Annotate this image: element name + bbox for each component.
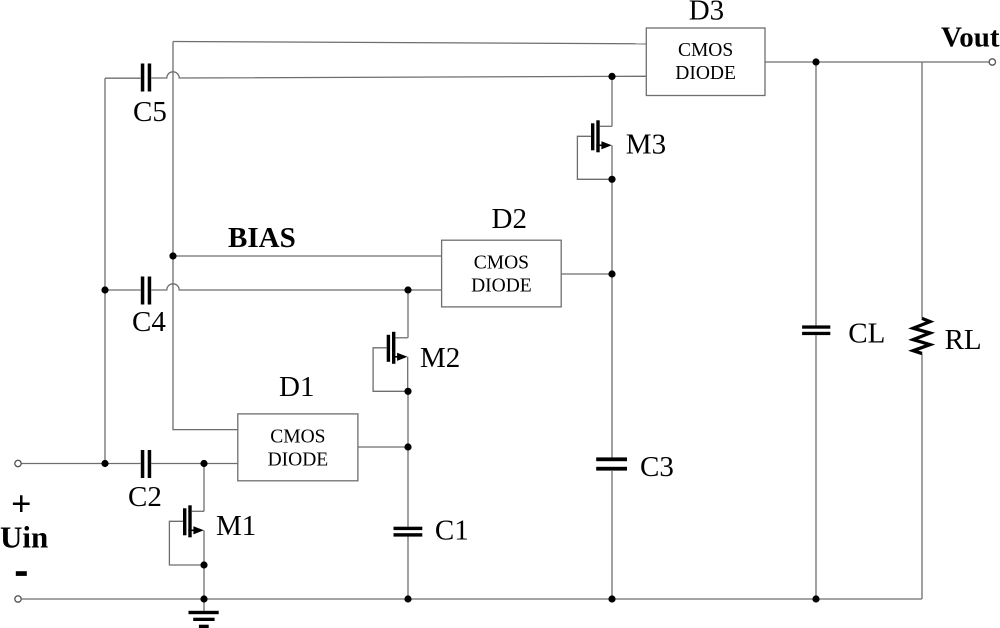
transistor M2 bbox=[373, 332, 408, 392]
node: Uin / M1 rail bbox=[200, 460, 207, 467]
node: M2 source-gate bbox=[404, 388, 411, 395]
wire: CL rail upper segment bbox=[815, 62, 817, 325]
svg-text:CMOS: CMOS bbox=[474, 252, 529, 273]
label minus bbox=[16, 571, 27, 576]
wire: M2 rail from C4 row down to M2 drain bbox=[407, 290, 409, 338]
terminal: Uin minus bbox=[15, 596, 21, 602]
svg-text:M1: M1 bbox=[216, 510, 256, 542]
svg-text:Vout: Vout bbox=[941, 22, 1000, 54]
transistor M3 bbox=[577, 120, 612, 179]
svg-text:DIODE: DIODE bbox=[675, 63, 736, 84]
node: bottom / CL bbox=[812, 595, 819, 602]
node: M3 source-gate bbox=[608, 176, 615, 183]
node: Vout/CL junction bbox=[812, 58, 819, 65]
wire: C5 right plate to M3 rail and D3 lower-left input (hop over BIAS rail) bbox=[151, 72, 646, 78]
wire: M1 source node down to bottom rail bbox=[203, 565, 205, 599]
svg-text:M2: M2 bbox=[420, 342, 460, 374]
capacitor C3 bbox=[596, 457, 627, 470]
wire: CL rail lower segment bbox=[815, 335, 817, 599]
wire: M2 source node down to D1 output node bbox=[407, 391, 409, 447]
svg-text:CMOS: CMOS bbox=[678, 40, 733, 61]
capacitor C2 bbox=[141, 450, 151, 478]
svg-text:BIAS: BIAS bbox=[228, 222, 296, 254]
svg-text:DIODE: DIODE bbox=[471, 275, 532, 296]
node: left rail / C4 branch bbox=[101, 286, 108, 293]
node: C4 / M2 drain / D2 input bbox=[404, 286, 411, 293]
svg-text:CL: CL bbox=[848, 318, 885, 350]
wire: C3 bottom plate down to bottom rail bbox=[611, 471, 613, 599]
svg-text:D1: D1 bbox=[279, 371, 314, 403]
svg-text:C1: C1 bbox=[435, 515, 469, 547]
CMOS diode D1 box bbox=[238, 414, 358, 481]
svg-text:CMOS: CMOS bbox=[270, 426, 325, 447]
svg-text:C3: C3 bbox=[640, 451, 674, 483]
wire: D3 output to Vout terminal bbox=[765, 61, 989, 63]
capacitor CL bbox=[802, 325, 830, 335]
wire: D1 output to M2/C1 rail bbox=[358, 446, 408, 448]
wire: RL rail upper segment bbox=[921, 62, 923, 318]
wire: BIAS node to D2 upper-left input bbox=[173, 255, 442, 257]
wire: M1 rail from Uin row down to M1 drain bbox=[203, 464, 205, 512]
wire: C4 right plate to D2 lower-left input (hop over BIAS rail) bbox=[151, 284, 441, 290]
CMOS diode D3 box bbox=[646, 28, 765, 96]
node: D2 output / M3 rail bbox=[608, 270, 615, 277]
wire: D1 output node down to C1 top plate bbox=[407, 447, 409, 527]
wire: BIAS rail continuing down to D1 upper-left input bbox=[173, 256, 238, 430]
wire: left rail branch to C4 left plate bbox=[105, 289, 141, 291]
node: M1 source-gate bbox=[200, 561, 207, 568]
svg-text:C2: C2 bbox=[128, 481, 162, 513]
svg-text:+: + bbox=[11, 484, 32, 524]
node: bottom / C3 bbox=[608, 595, 615, 602]
svg-text:D3: D3 bbox=[689, 0, 724, 27]
node: bottom / C1 bbox=[404, 595, 411, 602]
capacitor C5 bbox=[141, 64, 151, 92]
wire: left rail corner to C5 left plate bbox=[105, 77, 141, 79]
wire: top run from BIAS rail corner to D3 upper-left input bbox=[173, 42, 647, 44]
node: BIAS junction bbox=[169, 252, 176, 259]
svg-text:C4: C4 bbox=[132, 306, 166, 338]
wire: bottom ground rail bbox=[21, 598, 922, 600]
terminal: Vout bbox=[989, 59, 995, 65]
wire: Uin+ terminal to C2 left plate bbox=[21, 463, 140, 465]
capacitor C1 bbox=[394, 527, 423, 537]
node: bottom / M1 ground bbox=[200, 595, 207, 602]
svg-text:D2: D2 bbox=[492, 203, 527, 235]
svg-text:C5: C5 bbox=[133, 96, 167, 128]
svg-text:RL: RL bbox=[945, 324, 982, 356]
wire: D2 output to M3/C3 rail bbox=[561, 273, 612, 275]
svg-text:DIODE: DIODE bbox=[268, 449, 329, 470]
resistor RL bbox=[913, 318, 930, 353]
node: C5/M3 rail junction bbox=[608, 73, 615, 80]
wire: M3 rail upper segment (C5 row down to M3 drain) bbox=[611, 76, 613, 126]
CMOS diode D2 box bbox=[442, 240, 562, 307]
svg-text:Uin: Uin bbox=[0, 520, 48, 555]
svg-text:M3: M3 bbox=[626, 129, 666, 161]
transistor M1 bbox=[169, 505, 204, 565]
capacitor C4 bbox=[141, 277, 151, 305]
node: D1 output junction bbox=[404, 443, 411, 450]
ground symbol bbox=[189, 599, 219, 628]
wire: BIAS vertical rail (top corner down to BIAS node) bbox=[172, 42, 174, 257]
wire: M3 source node down to C3 top plate bbox=[611, 179, 613, 457]
wire: C2 right plate to D1 lower-left input bbox=[151, 463, 238, 465]
wire: RL rail lower segment bbox=[921, 354, 923, 600]
node: Uin / left rail bbox=[101, 460, 108, 467]
wire: C1 bottom plate down to bottom rail bbox=[407, 537, 409, 600]
wire: left vertical rail bbox=[104, 78, 106, 463]
terminal: Uin plus bbox=[15, 460, 21, 466]
